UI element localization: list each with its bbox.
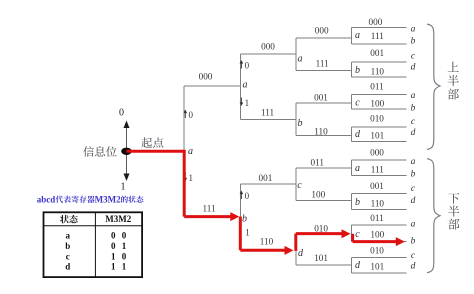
svg-text:M3M2: M3M2 [95,194,121,204]
label up0 on level2b [240,193,242,199]
svg-text:a: a [411,157,416,167]
svg-text:111: 111 [202,204,216,214]
svg-text:111: 111 [371,164,385,174]
bracket d4: vertical and branch lines [350,127,352,141]
svg-text:010: 010 [314,224,328,234]
svg-text:0: 0 [122,251,127,261]
svg-text:010: 010 [370,114,384,124]
node a level3 vertical [295,38,297,70]
svg-text:b: b [355,197,360,208]
table header zhuangtai [60,215,69,223]
bracket c3: vertical and branch lines [350,95,352,110]
node a level2 vertical [239,54,241,120]
red path segment down level1 [183,150,186,217]
svg-text:a: a [411,220,416,230]
svg-text:111: 111 [371,31,385,41]
svg-text:0: 0 [189,110,194,120]
bracket b6: vertical and branch lines [350,194,352,210]
svg-text:b: b [242,213,247,224]
svg-text:a: a [188,146,193,157]
svg-text:1: 1 [122,262,127,272]
svg-text:001: 001 [314,93,328,103]
svg-text:1: 1 [245,228,250,238]
branch 000 level1 up [184,85,240,87]
svg-text:a: a [355,30,360,41]
svg-text:a: a [298,54,303,65]
svg-text:001: 001 [259,173,273,183]
bracket b2: vertical and branch lines [350,62,352,77]
svg-text:b: b [298,118,303,129]
node a level1 vertical [183,86,185,217]
svg-text:b: b [65,241,70,251]
svg-text:b: b [411,36,416,46]
label lower-half (xia ban bu) [448,193,459,204]
red path segment up level3d [294,234,297,251]
label qidian (start point) [141,137,152,147]
svg-text:1: 1 [245,98,250,108]
svg-text:b: b [355,65,360,76]
svg-text:d: d [411,63,416,73]
svg-text:000: 000 [199,72,213,82]
svg-text:a: a [65,231,70,241]
svg-text:c: c [355,229,360,240]
label down1 on level2a [240,98,242,104]
svg-text:110: 110 [260,237,274,247]
node b level3 vertical [295,103,297,135]
svg-text:c: c [66,251,70,261]
svg-text:000: 000 [370,148,384,158]
svg-text:d: d [411,196,416,206]
branch 101 level3d down [296,264,352,266]
svg-text:100: 100 [370,230,384,240]
branch 111 level3a down [296,69,352,71]
svg-text:0: 0 [245,191,250,201]
node b level2 vertical [239,184,241,250]
svg-text:000: 000 [261,42,275,52]
brace upper half [427,24,440,149]
svg-text:c: c [355,98,360,109]
brace lower half [427,159,440,273]
svg-text:011: 011 [370,82,384,92]
svg-text:0: 0 [245,61,250,71]
svg-text:110: 110 [314,126,328,136]
svg-text:c: c [297,180,302,191]
branch 000 level3a up [296,37,352,39]
red path segment down bracket7 [351,234,354,242]
svg-text:110: 110 [371,198,385,208]
red path segment 110 with arrow [240,249,285,252]
svg-text:101: 101 [314,253,328,263]
node start: input axis vertical arrow [126,125,128,178]
svg-text:1: 1 [111,262,116,272]
svg-text:000: 000 [369,17,383,27]
branch 111 level2a down [240,119,295,121]
red path segment 100 exit with arrow [353,240,397,243]
svg-text:a: a [355,163,360,174]
svg-text:abcd: abcd [37,194,56,204]
table vertical divider [94,212,96,277]
branch 110 level3b down [296,134,352,136]
bracket a5: vertical and branch lines [350,160,352,176]
svg-text:110: 110 [371,66,385,76]
svg-text:001: 001 [370,181,384,191]
svg-text:111: 111 [316,58,330,68]
red path segment down level2b [239,217,242,251]
branch 001 level3b up [296,102,352,104]
svg-text:b: b [411,103,416,113]
branch 011 level3c up [296,167,352,169]
branch 000 level2a up [240,53,295,55]
svg-text:010: 010 [370,245,384,255]
svg-text:1: 1 [122,241,127,251]
svg-text:b: b [411,237,416,247]
svg-text:101: 101 [370,261,384,271]
svg-text:100: 100 [311,189,325,199]
bracket a1: vertical and branch lines [350,28,352,44]
svg-text:0: 0 [111,241,116,251]
svg-text:011: 011 [370,213,384,223]
svg-text:d: d [411,262,416,272]
bracket d8: vertical and branch lines [350,257,352,273]
svg-text:a: a [411,24,416,34]
svg-text:0: 0 [122,231,127,241]
svg-text:101: 101 [370,131,384,141]
node d level3 vertical gray part [295,251,297,265]
table state-register outer border [44,212,143,277]
red path segment start to level1 [127,150,186,153]
label xinxiwei (information bit) [83,146,94,157]
svg-text:d: d [65,262,70,272]
svg-text:000: 000 [315,26,329,36]
red path segment 111 with arrow [184,215,231,218]
svg-text:011: 011 [310,158,324,168]
red path segment 010 with arrow [296,232,343,235]
label down1 on level1 [184,172,186,179]
svg-text:100: 100 [370,98,384,108]
branch 001 level2b up [240,183,295,185]
label up0 on level1 [184,112,186,118]
svg-text:111: 111 [261,107,275,117]
svg-text:a: a [243,80,248,91]
svg-text:M3M2: M3M2 [105,214,131,224]
svg-text:0: 0 [111,231,116,241]
branch 100 level3c down [296,199,352,201]
svg-text:1: 1 [111,251,116,261]
bracket c7: vertical and branch lines [350,225,352,242]
table header divider [44,225,142,227]
start dot [121,148,132,155]
label upper-half (shang ban bu) [448,62,459,72]
svg-text:d: d [411,128,416,138]
svg-text:a: a [411,91,416,101]
label up0 on level2a [240,62,242,68]
svg-text:001: 001 [370,48,384,58]
svg-text:b: b [411,170,416,180]
svg-text:1: 1 [189,173,194,183]
svg-text:0: 0 [119,108,124,119]
node c level3 vertical [295,168,297,200]
svg-text:1: 1 [121,182,126,193]
